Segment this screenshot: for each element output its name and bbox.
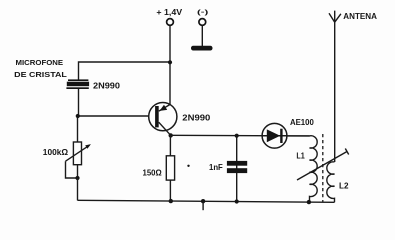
terminal (-) <box>191 19 213 51</box>
junction node: L1 to rail <box>307 200 311 204</box>
capacitor C1 1nF <box>227 136 247 202</box>
svg-text:100kΩ: 100kΩ <box>43 148 69 157</box>
wire: antenna feed <box>334 22 336 162</box>
print speck <box>187 165 189 167</box>
junction node: mic / +1.4V line <box>168 60 172 64</box>
svg-text:(-): (-) <box>197 9 208 16</box>
svg-text:2N990: 2N990 <box>182 113 210 123</box>
transformer core (dashed) <box>322 134 324 203</box>
svg-text:2N990: 2N990 <box>93 82 121 91</box>
wire: collector node right to AE100 <box>171 134 310 137</box>
ground rail (bottom) <box>78 200 335 202</box>
junction node: cap bottom on rail <box>235 199 239 203</box>
inductor L1 <box>287 136 317 202</box>
junction node: cap top <box>235 134 239 138</box>
terminal +1,4V <box>167 19 174 26</box>
junction node: base / pot <box>76 114 80 118</box>
antenna <box>329 11 341 23</box>
microphone MIC1 crystal element <box>66 79 89 89</box>
svg-text:+ 1,4V: + 1,4V <box>156 8 183 17</box>
diode D1 AE100 <box>262 123 287 148</box>
svg-text:150Ω: 150Ω <box>143 167 162 177</box>
svg-text:1nF: 1nF <box>209 162 223 172</box>
svg-text:ANTENA: ANTENA <box>343 12 377 21</box>
junction node: pot wiper tie <box>75 176 79 180</box>
transistor Q1 2N990 <box>149 103 177 136</box>
junction node + stub on rail <box>201 199 205 210</box>
svg-text:L1: L1 <box>296 151 305 161</box>
junction node: resistor to rail <box>169 199 173 203</box>
wire: +1.4V feed down to transistor emitter <box>169 26 171 105</box>
wire: pot down to ground rail <box>77 178 79 200</box>
tuning arrow across transformer <box>297 149 349 181</box>
junction node: collector <box>169 133 173 137</box>
svg-text:MICROFONE: MICROFONE <box>16 58 64 67</box>
label MICROFONE DE CRISTAL <box>14 58 67 79</box>
wire: base of transistor <box>78 115 149 117</box>
potentiometer 100kΩ <box>66 142 91 178</box>
wire: microphone top to +1.4V rail <box>79 62 171 80</box>
svg-text:L2: L2 <box>339 181 349 191</box>
inductor L2 <box>327 162 335 202</box>
wire: mic bottom to base node and down to potentiometer <box>78 89 79 142</box>
svg-text:AE100: AE100 <box>290 117 314 127</box>
svg-text:DE CRISTAL: DE CRISTAL <box>14 70 67 79</box>
resistor 150Ω <box>166 135 174 201</box>
